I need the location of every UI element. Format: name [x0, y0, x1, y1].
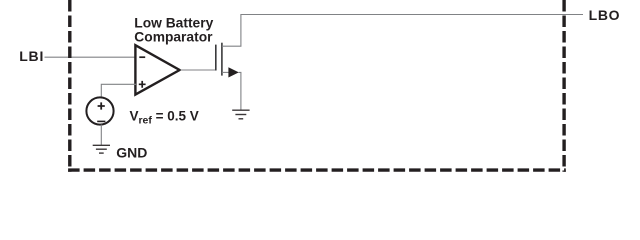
wire: source bottom to ground: [100, 125, 102, 146]
transistor Q1 channel bar: [221, 43, 223, 76]
op-amp U1 (low battery comparator): [135, 45, 179, 94]
voltage source Vref: [86, 97, 113, 124]
plus sign (non-inverting input): [139, 81, 146, 88]
minus sign (inverting input): [139, 56, 145, 58]
wire: drain to LBO pin: [222, 15, 583, 47]
wire: arrow to ground: [239, 72, 241, 110]
svg-text:Comparator: Comparator: [134, 29, 213, 44]
wire: comparator output to MOSFET gate: [181, 69, 216, 71]
svg-text:LBO: LBO: [589, 7, 621, 23]
svg-text:LBI: LBI: [19, 48, 44, 64]
wire: LBI to comparator inverting input: [45, 56, 137, 58]
svg-text:Low Battery: Low Battery: [134, 15, 213, 30]
wire: Vref source to comparator non-inverting input: [101, 84, 136, 96]
IC boundary dashed box: bottom edge: [68, 168, 566, 171]
IC boundary dashed box: left edge: [68, 0, 71, 172]
plus sign inside source: [98, 102, 105, 109]
minus sign inside source: [97, 120, 105, 122]
wire: source lead: [222, 71, 229, 73]
source arrow (points away from channel): [228, 67, 238, 77]
IC boundary dashed box: right edge: [562, 0, 565, 172]
svg-text:GND: GND: [116, 145, 147, 161]
ground (below Vref source): [93, 145, 110, 153]
transistor Q1 (N-channel open-drain) gate bar: [215, 45, 217, 71]
ground (MOSFET source): [232, 110, 249, 119]
